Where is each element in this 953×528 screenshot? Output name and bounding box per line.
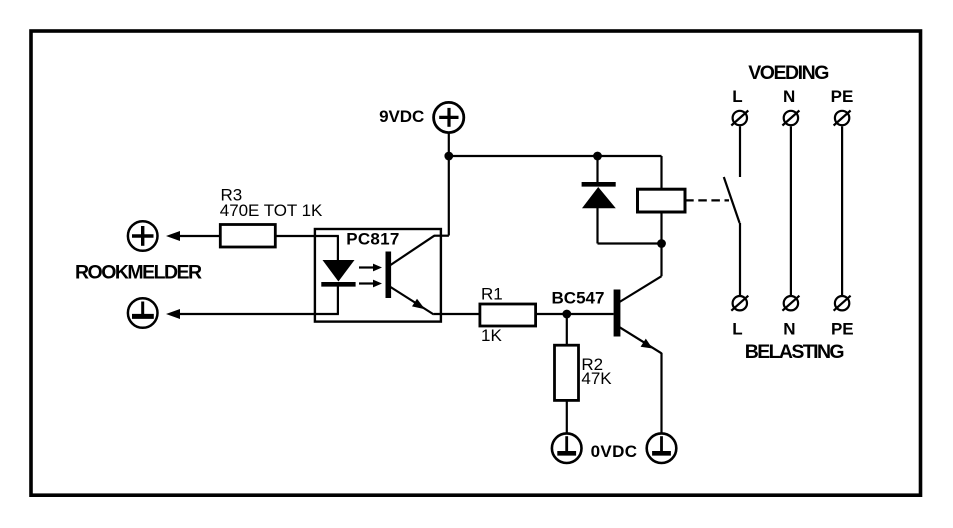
svg-text:PE: PE bbox=[831, 87, 854, 106]
svg-text:L: L bbox=[732, 87, 742, 106]
svg-text:BELASTING: BELASTING bbox=[745, 341, 845, 363]
svg-text:470E TOT 1K: 470E TOT 1K bbox=[220, 201, 323, 220]
svg-text:N: N bbox=[783, 87, 795, 106]
svg-text:1K: 1K bbox=[481, 326, 502, 345]
svg-text:ROOKMELDER: ROOKMELDER bbox=[75, 262, 202, 284]
svg-text:PE: PE bbox=[831, 319, 854, 338]
svg-text:PC817: PC817 bbox=[346, 230, 399, 249]
svg-text:L: L bbox=[732, 319, 742, 338]
svg-text:R1: R1 bbox=[481, 285, 503, 304]
svg-text:VOEDING: VOEDING bbox=[748, 62, 829, 84]
svg-text:47K: 47K bbox=[581, 369, 612, 388]
svg-text:9VDC: 9VDC bbox=[379, 107, 424, 126]
svg-text:BC547: BC547 bbox=[552, 288, 605, 307]
svg-text:N: N bbox=[783, 319, 795, 338]
svg-text:0VDC: 0VDC bbox=[591, 442, 637, 461]
